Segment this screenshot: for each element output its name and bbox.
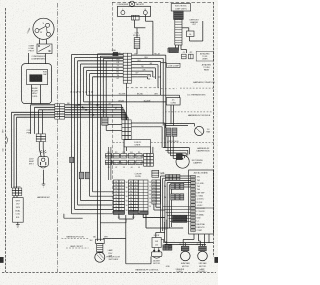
- connector P7 main harness header: [123, 53, 131, 83]
- node wire labels between headers: [126, 182, 152, 212]
- node label cabinet left edge: [3, 129, 5, 152]
- connector P2 power cord: [36, 134, 45, 142]
- node label evap fan motor: [181, 262, 190, 268]
- node junction dots on bundle: [78, 104, 101, 116]
- wire bottom-right bus: [165, 220, 213, 247]
- wire feeds into lower pins: [163, 207, 191, 222]
- node label motorized damper: [192, 160, 204, 165]
- node label harness conveyor: [193, 81, 215, 84]
- node label attached to wiring harness: [202, 63, 212, 71]
- wire bottom block stubs below: [100, 204, 183, 228]
- wire trunk elbows to bottom connectors: [72, 192, 114, 214]
- node scan noise overlay: [0, 0, 218, 285]
- wire bundle left of connector P1: [12, 105, 55, 117]
- module U3 add ac board: [189, 170, 214, 234]
- ground label bottom right: [166, 266, 171, 268]
- connector end caps bottom of headers: [113, 211, 148, 219]
- wire grommet arc on left border: [6, 136, 8, 145]
- connector plug freezer fan: [199, 246, 207, 251]
- connector plug symbols row: [182, 52, 194, 59]
- connector P12 hatched column: [138, 180, 148, 214]
- motor M6 freezer fan: [198, 251, 208, 261]
- connector strip board pins: [191, 175, 206, 232]
- node label dc thermistors: [188, 95, 207, 97]
- motor M2 condenser fan: [117, 1, 151, 16]
- node label harness-wc: [37, 196, 51, 199]
- motor M4 motorized damper: [176, 154, 189, 168]
- module U1 electronic compressor control: [171, 4, 190, 11]
- wire elbows down to connector P2: [31, 105, 43, 134]
- connector P9 small grid: [144, 153, 154, 166]
- node label freezer fan motor: [199, 262, 207, 268]
- wire cabinet top dashed border: [112, 1, 214, 3]
- node label ff door rows: [90, 240, 121, 261]
- wire harness ladder bar: [175, 19, 182, 45]
- solenoid L1 water valve: [13, 196, 24, 223]
- node label power connector: [27, 130, 32, 135]
- wire cabinet bottom dashed border: [2, 272, 216, 274]
- connector inline at P8 feed turn: [102, 117, 108, 125]
- wire board bottom exits: [183, 234, 209, 246]
- node label harness ff control: [135, 269, 159, 272]
- node label harness ff damper module: [197, 147, 211, 153]
- connector P1 compressor harness: [55, 104, 65, 119]
- wire door light feed: [64, 214, 83, 218]
- node label compressor compartment: [31, 56, 46, 61]
- connector P5 inline striped: [134, 28, 140, 54]
- node label partition mark 4: [57, 179, 58, 181]
- node label gnd row left of partition: [112, 50, 118, 56]
- wire dashed separator harness conveyor: [126, 88, 213, 89]
- connector P14 damper-left grid: [160, 172, 180, 180]
- lamp DS1 french door light: [95, 239, 126, 263]
- wire cabinet right dashed border: [213, 2, 215, 257]
- node label compressor: [27, 27, 32, 34]
- wire P8 bottom stub: [124, 83, 126, 153]
- wire trunk verticals center group: [98, 54, 122, 240]
- node page mark bottom-right: [215, 257, 218, 262]
- motor M7 auger motor: [152, 248, 162, 259]
- node label con compressor box: [161, 55, 181, 67]
- node wire labels bottom right: [169, 245, 173, 250]
- wire dashed separator dc module: [165, 111, 214, 113]
- node label freezer light rows: [176, 268, 207, 273]
- node label con fd plug: [133, 32, 140, 36]
- node label con ff control: [134, 174, 142, 179]
- wire water valve feeders: [12, 112, 17, 188]
- node label overload text block: [28, 45, 34, 52]
- thermostat S1 defrost: [182, 21, 203, 41]
- wire trunk verticals left group: [72, 54, 93, 213]
- ground power plug: [42, 170, 46, 187]
- node label lamp 120v: [108, 249, 114, 257]
- wire threading lines label rows: [105, 147, 144, 180]
- wire stubs into P9: [151, 147, 153, 154]
- wire bundle P1 to P8 elbows: [65, 105, 129, 120]
- node label harness dc module: [188, 114, 211, 117]
- wire bundle top-center to grid: [98, 54, 124, 61]
- power plug J1: [38, 150, 48, 168]
- wire compressor to relay: [40, 39, 47, 44]
- connector P8 liner harness: [122, 120, 131, 139]
- node label lamp circuit lower: [66, 245, 89, 248]
- wire bundle grid left fan-out: [72, 54, 124, 76]
- wire dc module bus: [165, 105, 195, 128]
- connector comb bottom-right: [163, 245, 172, 250]
- connector pair inline on trunk: [70, 157, 90, 179]
- wire cabinet partition dash-dot line: [57, 3, 59, 272]
- connector plug evap fan: [181, 246, 189, 251]
- thermistor RT2 cluster row 2: [164, 194, 184, 200]
- node label defrost heater: [190, 19, 200, 26]
- node label harness door upper: [62, 236, 89, 239]
- connector P3 water valve plug: [12, 186, 22, 195]
- node wire labels lamp: [93, 237, 108, 239]
- node label compartment wiring text: [31, 88, 38, 98]
- wire ff control feed: [126, 215, 151, 264]
- node wire labels on staircase: [135, 53, 144, 74]
- connector P6 control plug hatched: [174, 11, 184, 19]
- connector pair dc module hatched: [166, 128, 177, 136]
- motor M5 evaporator fan: [181, 251, 191, 261]
- node labels above fan plugs: [179, 244, 200, 246]
- module U2 DC converter box: [166, 98, 180, 105]
- wire door switch feed: [156, 232, 165, 237]
- connector P4 condenser fan plug: [132, 15, 140, 20]
- ground water valve: [16, 222, 20, 227]
- wire damper nested elbows: [163, 136, 190, 159]
- wire connector P2 to plug: [39, 142, 44, 157]
- connector cluster board lower left dark: [173, 215, 187, 222]
- thermistor RT1 cluster row 1: [164, 183, 184, 189]
- relay K1 start relay: [37, 44, 52, 54]
- wire staircase right fan-out: [131, 55, 165, 148]
- connector P11 control header B: [129, 180, 139, 214]
- node compressor compartment outline: [22, 64, 52, 104]
- node wire label row lower: [105, 160, 142, 169]
- connector P13 header C: [152, 180, 160, 205]
- motor M3 dc evap fan: [195, 126, 211, 135]
- wire liner partition dashed line upper: [112, 2, 114, 213]
- heater R1 hatched box: [152, 170, 165, 177]
- capacitor C1 run capacitor: [27, 70, 48, 85]
- node label gnd cab: [116, 53, 121, 55]
- wire control fan-out bottom: [168, 45, 187, 53]
- node wire label smudges extra: [83, 54, 160, 113]
- switch S2 door switch box: [152, 238, 168, 248]
- node wire labels left of P7: [116, 56, 120, 80]
- node wire label row upper: [106, 152, 143, 158]
- node trunk wire gauge labels: [71, 91, 94, 94]
- node page mark bottom-left: [0, 257, 3, 262]
- wire relay to compartment box: [29, 53, 46, 64]
- wire condenser fan leads: [135, 15, 153, 56]
- wire dc converter top lead: [179, 95, 181, 97]
- node label con dc module: [167, 141, 179, 143]
- node wire labels on bundle: [67, 103, 118, 110]
- wire thermistor nested elbows: [161, 176, 191, 232]
- node label door switch: [154, 235, 160, 237]
- connector P10 control header A: [113, 180, 124, 214]
- node label attached to FF liner dashed box: [196, 51, 213, 61]
- node label power supply text: [29, 159, 35, 166]
- wire cabinet left dashed border: [5, 8, 7, 272]
- wire P8 right exit to damper: [131, 123, 165, 148]
- node label auger motor: [153, 260, 160, 266]
- wire long lines to DC converter: [84, 93, 180, 102]
- node label con FF liner box: [124, 140, 150, 147]
- wire dashed separator damper module: [113, 141, 214, 143]
- compressor motor M1: [33, 18, 54, 39]
- wire capacitor leads: [32, 85, 41, 104]
